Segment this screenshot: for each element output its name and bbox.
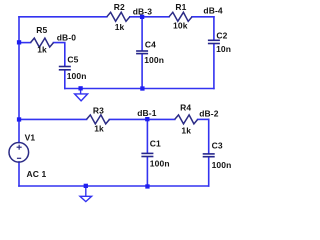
svg-text:R1: R1	[175, 2, 186, 12]
svg-text:dB-4: dB-4	[203, 5, 223, 15]
svg-text:1k: 1k	[94, 124, 104, 134]
svg-text:10n: 10n	[216, 44, 231, 54]
svg-text:100n: 100n	[212, 160, 232, 170]
svg-text:C3: C3	[212, 141, 223, 151]
svg-text:dB-1: dB-1	[137, 108, 157, 118]
svg-text:100n: 100n	[67, 71, 87, 81]
svg-text:C2: C2	[216, 30, 227, 40]
svg-text:AC 1: AC 1	[27, 169, 47, 179]
svg-text:1k: 1k	[37, 45, 47, 55]
svg-text:1k: 1k	[115, 22, 125, 32]
svg-text:100n: 100n	[144, 55, 164, 65]
svg-text:1k: 1k	[181, 125, 191, 135]
svg-text:C5: C5	[67, 54, 78, 64]
svg-text:10k: 10k	[173, 20, 188, 30]
svg-text:V1: V1	[25, 132, 36, 142]
svg-text:C1: C1	[150, 139, 161, 149]
svg-text:R4: R4	[180, 102, 191, 112]
svg-text:dB-0: dB-0	[57, 33, 77, 43]
svg-text:R3: R3	[93, 106, 104, 116]
svg-text:C4: C4	[145, 40, 156, 50]
svg-text:R5: R5	[36, 25, 47, 35]
svg-text:100n: 100n	[150, 159, 170, 169]
svg-text:R2: R2	[114, 2, 125, 12]
svg-text:dB-2: dB-2	[199, 108, 219, 118]
svg-text:dB-3: dB-3	[133, 6, 153, 16]
